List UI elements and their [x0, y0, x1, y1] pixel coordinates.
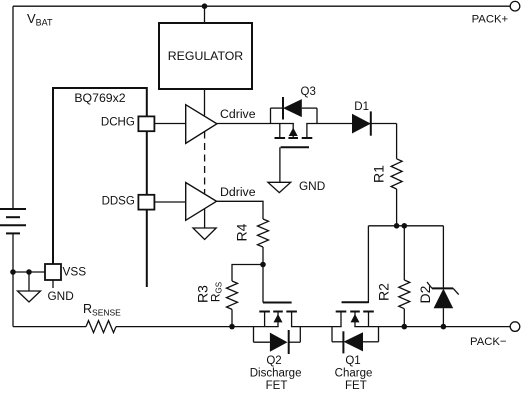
- transistor Q1: [336, 302, 374, 326]
- resistor RSENSE: [83, 302, 121, 333]
- transistor Q2: [259, 265, 297, 327]
- wire Cdrive output: [217, 123, 294, 125]
- battery B1: [0, 209, 26, 233]
- junction RGS/rail: [229, 324, 235, 330]
- junction R2/bus: [402, 223, 408, 229]
- svg-text:D1: D1: [354, 101, 369, 113]
- wire rail Q1-PACK-: [354, 326, 510, 328]
- svg-text:PACK+: PACK+: [472, 14, 509, 26]
- ground (Q3 gate): [268, 179, 325, 193]
- Q3 channel stubs: [279, 124, 281, 139]
- junction R4/RGS/gate: [260, 262, 266, 268]
- wire DDSG to buffer: [154, 201, 185, 203]
- svg-text:Q3: Q3: [301, 86, 316, 98]
- wire left rail upper: [12, 6, 14, 209]
- Q2 body arrow: [274, 314, 283, 322]
- svg-text:R2: R2: [376, 283, 392, 301]
- Q1 gate plate: [342, 301, 369, 303]
- Q2 body diode loop: [254, 327, 301, 354]
- ground (Ddrive): [193, 228, 216, 240]
- svg-text:Ddrive: Ddrive: [220, 185, 256, 199]
- junction D2/rail: [441, 324, 447, 330]
- Q1 body arrow: [351, 314, 360, 322]
- regulator U2: [159, 23, 252, 89]
- Q3 gate lead: [279, 147, 281, 182]
- svg-text:Discharge: Discharge: [250, 367, 302, 379]
- svg-text:FET: FET: [266, 380, 288, 392]
- buffer Cdrive: [186, 105, 217, 144]
- resistor R1: [371, 159, 403, 189]
- svg-text:Q2: Q2: [266, 355, 281, 367]
- node PACK+: [510, 1, 520, 11]
- Q3 body diode: [283, 99, 302, 117]
- svg-text:Cdrive: Cdrive: [220, 107, 256, 121]
- svg-text:FET: FET: [345, 380, 367, 392]
- dashed wire between buffers: [204, 132, 206, 194]
- svg-text:DDSG: DDSG: [102, 196, 135, 208]
- resistor R3 RGS: [195, 281, 238, 309]
- Q3 body arrow: [289, 128, 298, 136]
- ground (left): [18, 272, 41, 302]
- svg-text:Q1: Q1: [345, 355, 360, 367]
- Q3 gate plate: [281, 146, 309, 148]
- junction R2/rail: [402, 324, 408, 330]
- svg-text:GND: GND: [299, 179, 325, 193]
- Q1 body diode loop: [332, 327, 379, 354]
- svg-text:PACK−: PACK−: [470, 336, 507, 348]
- wire rail Q2-Q1: [291, 326, 342, 328]
- svg-text:Charge: Charge: [335, 367, 373, 379]
- wire regulator to Cdrive buffer: [204, 89, 206, 116]
- wire Ddrive ground stub: [204, 209, 206, 229]
- svg-text:R4: R4: [234, 223, 250, 241]
- Q1 channel stubs: [340, 312, 342, 327]
- Q1 body diode: [344, 332, 364, 351]
- wire bottom rail left: [13, 326, 86, 328]
- resistor R2: [376, 226, 410, 327]
- Q2 gate plate: [263, 302, 292, 304]
- wire Ddrive output to R4: [217, 201, 264, 219]
- transistor Q3: [275, 124, 313, 183]
- svg-text:GND: GND: [48, 289, 74, 303]
- Q3 contact bars: [275, 137, 286, 139]
- junction top rail: [202, 3, 208, 9]
- wire RGS to rail: [231, 309, 233, 326]
- resistor R4: [234, 219, 269, 247]
- pin VSS: [45, 264, 86, 303]
- junction battery/VSS: [10, 269, 16, 275]
- Q2 gate lead: [262, 265, 264, 303]
- wire node to RGS: [232, 265, 263, 282]
- Q2 channel stubs: [264, 312, 266, 327]
- Q1 contact bars: [336, 311, 347, 313]
- Q3 body diode loop: [271, 97, 318, 124]
- svg-text:D2: D2: [417, 285, 433, 303]
- svg-text:R1: R1: [371, 165, 387, 183]
- wire Q3 drain side: [306, 123, 396, 125]
- zener D2: [417, 226, 459, 327]
- wire R4 to node: [262, 247, 264, 265]
- wire top rail: [13, 5, 510, 7]
- pin DCHG: [101, 116, 154, 131]
- svg-text:BQ769x2: BQ769x2: [74, 91, 125, 105]
- wire D1 to R1 corner: [396, 124, 398, 159]
- wire to VSS pin: [13, 271, 45, 273]
- node PACK-: [510, 322, 520, 332]
- wire left rail lower: [12, 272, 14, 327]
- wire bottom rail right: [116, 326, 279, 328]
- wire gate bus: [368, 225, 443, 227]
- wire DCHG to buffer: [154, 123, 185, 125]
- wire battery to junction: [12, 233, 14, 272]
- svg-text:VSS: VSS: [63, 265, 87, 279]
- Q2 contact bars: [259, 311, 270, 313]
- wire bus to Q1 gate: [342, 226, 369, 302]
- diode D1: [352, 101, 371, 136]
- wire R1 to bus: [396, 189, 398, 226]
- junction R1/bus: [394, 223, 400, 229]
- junction ground tap: [26, 269, 32, 275]
- wire rail to regulator: [204, 6, 206, 23]
- svg-text:DCHG: DCHG: [101, 117, 135, 129]
- BQ769x2 box: [52, 87, 147, 287]
- pin DDSG: [102, 195, 155, 210]
- buffer Ddrive: [186, 183, 217, 221]
- Q2 body diode: [270, 333, 288, 352]
- svg-text:REGULATOR: REGULATOR: [168, 49, 244, 63]
